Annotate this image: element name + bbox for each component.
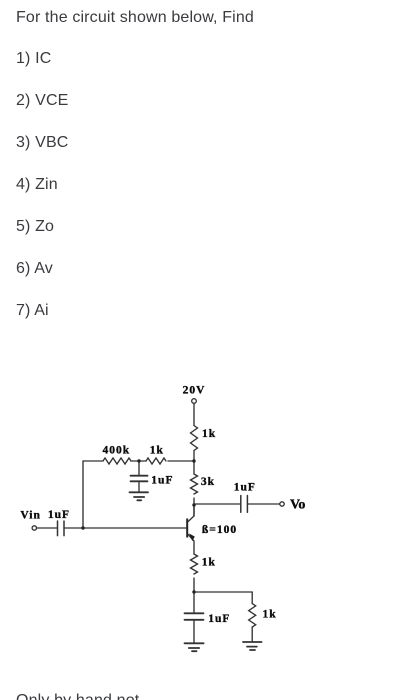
svg-text:400k: 400k <box>103 445 131 457</box>
svg-text:ß=100: ß=100 <box>202 524 237 536</box>
svg-text:1uF: 1uF <box>234 482 256 494</box>
svg-text:1k: 1k <box>150 445 164 457</box>
svg-text:1k: 1k <box>202 428 216 440</box>
svg-text:1uF: 1uF <box>48 509 70 521</box>
svg-text:1k: 1k <box>263 608 277 620</box>
svg-text:3k: 3k <box>201 476 215 488</box>
svg-text:1k: 1k <box>202 557 216 569</box>
svg-text:20V: 20V <box>183 385 206 397</box>
svg-text:Vo: Vo <box>290 498 305 513</box>
svg-text:Vin: Vin <box>20 509 40 521</box>
svg-text:1uF: 1uF <box>208 613 230 625</box>
svg-text:1uF: 1uF <box>151 474 173 486</box>
